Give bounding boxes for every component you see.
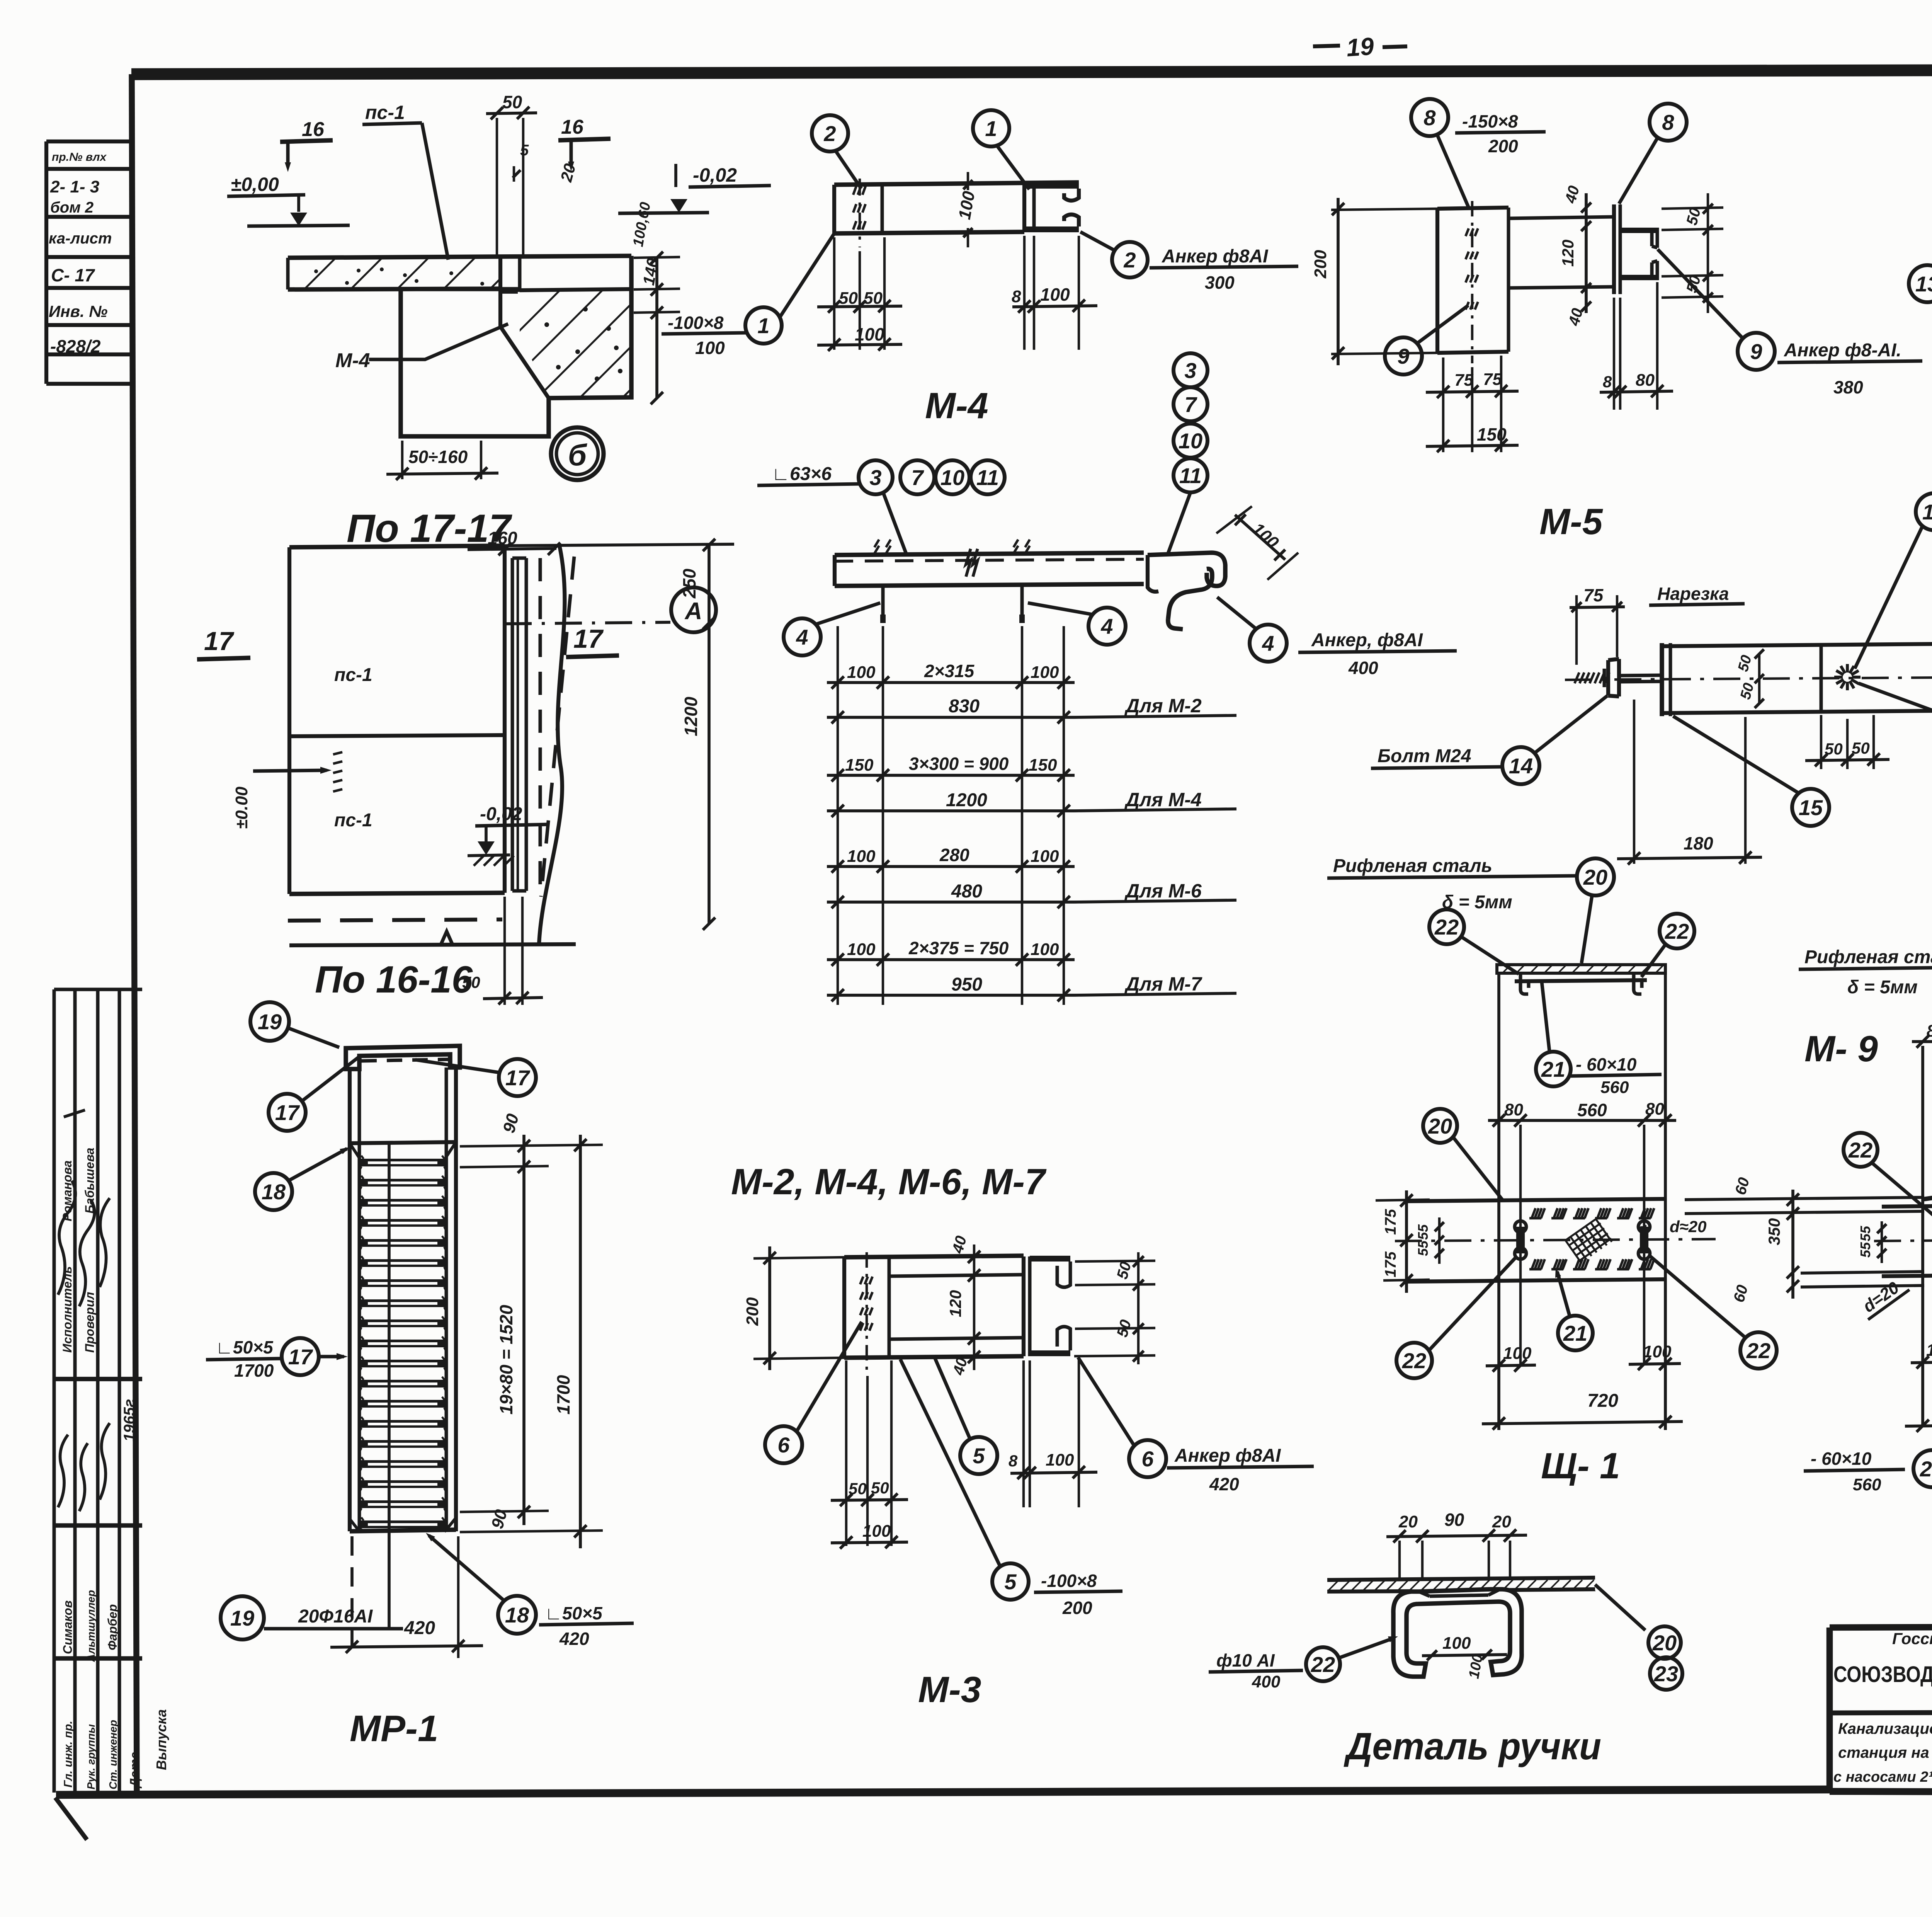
svg-text:100: 100 [1031, 847, 1059, 866]
signatures [58, 1181, 75, 1295]
M-3 channel right [1022, 1256, 1026, 1356]
ladder MR-1 top cap [346, 1046, 460, 1069]
svg-text:8: 8 [1603, 373, 1612, 391]
svg-text:4: 4 [1262, 631, 1274, 655]
svg-text:1: 1 [985, 116, 997, 141]
svg-text:400: 400 [1252, 1672, 1281, 1691]
svg-text:300: 300 [1205, 272, 1235, 293]
svg-text:180: 180 [1684, 833, 1713, 853]
svg-text:21: 21 [1541, 1057, 1565, 1081]
svg-text:пс-1: пс-1 [334, 665, 372, 685]
svg-text:50: 50 [502, 92, 522, 112]
svg-text:17: 17 [288, 1345, 313, 1369]
svg-text:50÷160: 50÷160 [408, 447, 468, 467]
M-5 dim 200 left [1331, 209, 1437, 210]
svg-text:3×300 = 900: 3×300 = 900 [909, 754, 1009, 774]
svg-text:830: 830 [949, 696, 980, 717]
svg-text:17: 17 [505, 1066, 531, 1090]
anchors with hooks [881, 586, 885, 617]
M-5 dims 50 50 right [1707, 193, 1709, 313]
svg-text:4: 4 [1100, 614, 1113, 638]
svg-text:Деталь ручки: Деталь ручки [1344, 1725, 1601, 1767]
svg-text:М- 9: М- 9 [1804, 1028, 1878, 1069]
svg-text:Госстрой: Госстрой [1892, 1629, 1932, 1648]
svg-text:22: 22 [1402, 1348, 1426, 1373]
svg-text:50: 50 [864, 289, 883, 308]
svg-text:100: 100 [1643, 1342, 1672, 1361]
svg-text:19: 19 [230, 1606, 254, 1630]
svg-text:100: 100 [847, 940, 876, 959]
svg-text:Для М-4: Для М-4 [1124, 789, 1202, 810]
svg-text:Для М-2: Для М-2 [1124, 695, 1202, 717]
svg-text:560: 560 [1600, 1078, 1629, 1097]
svg-text:1700: 1700 [553, 1375, 573, 1415]
ladder center rod [388, 1144, 391, 1531]
svg-text:22: 22 [1848, 1138, 1872, 1162]
bottom dashed slab lines [288, 919, 502, 921]
svg-text:280: 280 [939, 845, 969, 865]
Sch-1 panel band [1406, 1199, 1665, 1201]
break marks on bar [966, 549, 978, 577]
ladder rails [348, 1069, 352, 1531]
svg-text:22: 22 [1434, 915, 1459, 939]
M-3 dim 200 left [753, 1257, 844, 1258]
svg-text:15: 15 [1922, 500, 1932, 524]
M-4 dims below left [833, 237, 835, 350]
svg-text:175: 175 [1382, 1251, 1399, 1277]
handle leader to 20 23 [1595, 1585, 1645, 1630]
embedded channel strip [503, 546, 507, 893]
M-4 anchor marks [859, 179, 861, 247]
svg-text:400: 400 [1348, 658, 1378, 678]
callout 15 mid [1792, 789, 1829, 826]
svg-text:90: 90 [1444, 1510, 1464, 1530]
svg-text:Рук. группы: Рук. группы [85, 1724, 97, 1789]
side view callouts 22 [1429, 909, 1464, 944]
svg-text:18: 18 [505, 1603, 529, 1627]
callout 1 left with label -100x8/100 [745, 307, 782, 344]
callout 17 top-left [269, 1094, 306, 1131]
svg-text:1200: 1200 [946, 790, 987, 810]
dim 90 upper [460, 1145, 603, 1146]
callout 2 top [812, 115, 848, 152]
svg-text:420: 420 [404, 1618, 435, 1638]
handle top plate hatched [1327, 1578, 1595, 1580]
svg-text:5: 5 [520, 142, 529, 159]
svg-text:с насосами 2¹/₂ НФ или 4НФ: с насосами 2¹/₂ НФ или 4НФ [1833, 1769, 1932, 1785]
svg-text:Анкер, ф8АΙ: Анкер, ф8АΙ [1311, 630, 1423, 650]
svg-text:8: 8 [1012, 287, 1021, 306]
svg-text:10: 10 [940, 465, 964, 490]
svg-text:120: 120 [1559, 240, 1577, 267]
svg-text:Канализационная насосная: Канализационная насосная [1838, 1720, 1932, 1737]
svg-text:7: 7 [1184, 392, 1197, 417]
svg-text:Выпуска: Выпуска [153, 1709, 169, 1770]
svg-text:80: 80 [1504, 1100, 1523, 1119]
svg-text:2: 2 [823, 121, 836, 146]
svg-text:200: 200 [1062, 1598, 1092, 1618]
svg-text:7: 7 [911, 465, 924, 490]
svg-text:Гл. инж. пр.: Гл. инж. пр. [62, 1721, 75, 1788]
wall block outline [401, 256, 631, 436]
svg-text:1965г: 1965г [121, 1399, 138, 1442]
svg-text:2- 1- 3: 2- 1- 3 [50, 177, 99, 196]
svg-text:По 16-16: По 16-16 [315, 958, 473, 1001]
svg-text:М-4: М-4 [925, 385, 988, 426]
Sch-1 callout 20 left [1423, 1109, 1457, 1143]
svg-text:55: 55 [1415, 1224, 1431, 1240]
svg-text:20: 20 [1583, 865, 1607, 889]
M-2..M-7 plan bar [835, 553, 1144, 555]
M-9 dim 180 [1633, 700, 1635, 864]
svg-text:δ = 5мм: δ = 5мм [1847, 977, 1918, 998]
svg-text:6: 6 [777, 1433, 790, 1457]
svg-text:∟63×6: ∟63×6 [772, 464, 832, 484]
svg-text:11: 11 [1179, 463, 1202, 488]
svg-text:200: 200 [1311, 250, 1330, 279]
callout 6 left [765, 1426, 802, 1463]
dashed excavation lines [539, 558, 542, 891]
svg-text:200: 200 [743, 1297, 762, 1326]
svg-text:М-3: М-3 [918, 1669, 981, 1710]
callout 13 left [1909, 265, 1932, 302]
Sch-2 slanted top plate [1923, 1179, 1932, 1199]
svg-text:МР-1: МР-1 [350, 1708, 438, 1749]
M-9 centerline [1565, 677, 1932, 680]
svg-text:М-2, М-4, М-6, М-7: М-2, М-4, М-6, М-7 [731, 1161, 1047, 1202]
callout 4 mid [1088, 608, 1126, 645]
svg-text:пс-1: пс-1 [334, 810, 372, 831]
svg-text:1: 1 [757, 313, 769, 338]
svg-text:5: 5 [1004, 1570, 1017, 1594]
svg-text:С- 17: С- 17 [51, 265, 95, 285]
svg-text:560: 560 [1577, 1100, 1607, 1120]
callout 4 right with label Anker f8AI/400 [1250, 625, 1287, 662]
svg-text:420: 420 [1209, 1474, 1239, 1494]
Sch-1 weld rows [1529, 1217, 1541, 1219]
callout stack 3 7 10 11 right [1173, 353, 1207, 387]
border frame bottom [56, 1789, 1832, 1795]
svg-text:∟50×5: ∟50×5 [545, 1603, 603, 1623]
band dim lines to the right [1685, 1197, 1924, 1200]
svg-text:100: 100 [1031, 940, 1059, 959]
svg-text:55: 55 [1415, 1240, 1431, 1256]
svg-text:100: 100 [1031, 663, 1059, 682]
svg-text:2: 2 [1123, 248, 1136, 272]
border frame left [132, 74, 137, 1793]
svg-text:21: 21 [1920, 1457, 1932, 1481]
svg-text:ка-лист: ка-лист [49, 230, 112, 247]
svg-text:3: 3 [869, 465, 881, 490]
svg-text:80: 80 [1636, 371, 1655, 390]
callout 5 bottom with label -100x8/200 [992, 1563, 1029, 1600]
svg-text:18: 18 [262, 1180, 286, 1204]
svg-text:22: 22 [1746, 1338, 1770, 1363]
M-5 plate [1437, 208, 1509, 209]
svg-text:100: 100 [862, 1522, 891, 1541]
svg-text:Болт М24: Болт М24 [1378, 746, 1471, 766]
svg-text:75: 75 [1454, 371, 1473, 390]
svg-text:1200: 1200 [681, 696, 701, 736]
svg-text:200: 200 [1488, 136, 1518, 156]
stamp column lower boxes [53, 989, 56, 1793]
M-4 channel end [1022, 183, 1026, 232]
svg-text:9: 9 [1397, 344, 1409, 368]
svg-text:17: 17 [275, 1100, 300, 1125]
M-9 dims 50 50 bottom [1820, 715, 1822, 769]
svg-text:Щ- 1: Щ- 1 [1541, 1445, 1620, 1486]
svg-text:720: 720 [1587, 1391, 1618, 1411]
callout 18 upper [255, 1173, 292, 1210]
svg-text:Ст. инженер: Ст. инженер [107, 1720, 119, 1789]
Sch-1 left dims 175 175 55 55 [1405, 1190, 1408, 1293]
svg-text:СОЮЗВОДОКАНАЛПРОЕКТ: СОЮЗВОДОКАНАЛПРОЕКТ [1833, 1662, 1932, 1687]
svg-text:19: 19 [1345, 32, 1375, 62]
svg-text:4: 4 [796, 625, 808, 649]
Sch-1 callout 21 bottom [1558, 1316, 1593, 1350]
svg-text:- 60×10: - 60×10 [1576, 1054, 1637, 1074]
svg-text:100: 100 [1442, 1634, 1471, 1653]
svg-text:250: 250 [679, 569, 699, 599]
svg-text:21: 21 [1563, 1321, 1587, 1345]
dims 250 / 1200 right [505, 544, 734, 546]
svg-text:23: 23 [1654, 1662, 1678, 1686]
wall outline 16-16 [289, 546, 505, 547]
callout 15 top with label -100x16/100 [1916, 493, 1932, 530]
dashed extension ladder bottom [350, 1536, 354, 1658]
svg-text:350: 350 [1765, 1218, 1783, 1245]
ladder top transition [350, 1142, 456, 1143]
callout 8 right [1650, 104, 1687, 141]
svg-text:13: 13 [1915, 272, 1932, 296]
svg-text:100: 100 [855, 324, 884, 344]
svg-text:- 60×10: - 60×10 [1811, 1449, 1872, 1469]
svg-text:175: 175 [1382, 1209, 1399, 1235]
svg-text:пр.№ влх: пр.№ влх [52, 151, 107, 163]
M-4 plate plan [834, 182, 1079, 185]
svg-text:Анкер ф8АΙ: Анкер ф8АΙ [1174, 1445, 1281, 1466]
svg-text:950: 950 [951, 974, 982, 995]
svg-text:16: 16 [561, 116, 584, 138]
callout 9 right with label Anker f8-AI/380 [1738, 333, 1775, 370]
svg-text:Нарезка: Нарезка [1657, 584, 1729, 604]
break curve right [539, 544, 565, 945]
M-5 bottom dims 75 75 150 [1442, 358, 1444, 452]
svg-text:560: 560 [1853, 1475, 1881, 1494]
dim 420 bottom [457, 1536, 459, 1658]
M-9 weld burst [1834, 664, 1861, 690]
svg-text:∟50×5: ∟50×5 [216, 1337, 274, 1357]
concrete slab strip [288, 256, 631, 258]
svg-text:-828/2: -828/2 [50, 336, 101, 356]
label d=20 rotated [1856, 1273, 1910, 1319]
callout 2 right with label Anker f8AI/300 [1112, 242, 1148, 278]
svg-text:20: 20 [1428, 1114, 1452, 1138]
M-3 dims 50 50 right [1137, 1252, 1139, 1364]
svg-text:20: 20 [1492, 1512, 1511, 1531]
svg-text:150: 150 [1477, 424, 1507, 444]
axis line and node A [505, 622, 670, 624]
svg-text:150: 150 [845, 756, 874, 775]
svg-text:пс-1: пс-1 [365, 102, 405, 123]
svg-text:2×315: 2×315 [924, 661, 975, 681]
callout 19 bottom with label 20 f16AI [221, 1596, 264, 1639]
handle C profile [1393, 1589, 1522, 1677]
svg-text:-0,02: -0,02 [480, 804, 522, 824]
svg-text:380: 380 [1833, 377, 1863, 397]
Sch-2 panel band [1882, 1204, 1932, 1207]
embedded plate M-4 joint [500, 287, 520, 292]
svg-text:ф10 АΙ: ф10 АΙ [1216, 1650, 1275, 1670]
svg-text:19×80 = 1520: 19×80 = 1520 [496, 1305, 516, 1415]
svg-text:Проверил: Проверил [83, 1292, 97, 1353]
Sch-1 centerline [1395, 1239, 1716, 1241]
svg-text:100: 100 [1040, 284, 1070, 305]
svg-text:50: 50 [1852, 739, 1870, 757]
svg-text:17: 17 [573, 624, 604, 654]
svg-text:420: 420 [559, 1629, 589, 1649]
svg-text:Дата: Дата [128, 1752, 142, 1789]
svg-text:100: 100 [1046, 1451, 1074, 1469]
svg-text:100: 100 [847, 847, 876, 866]
corner slash bottom-left [55, 1798, 87, 1840]
svg-text:75: 75 [1583, 585, 1604, 605]
svg-text:Рифленая сталь: Рифленая сталь [1333, 856, 1492, 876]
callout 1 top [973, 110, 1009, 146]
svg-text:10: 10 [1179, 429, 1202, 453]
svg-text:22: 22 [1311, 1652, 1335, 1677]
Sch-1 callout 22 right-bottom [1740, 1332, 1777, 1369]
svg-text:8: 8 [1423, 106, 1436, 130]
border frame top [131, 69, 1932, 74]
slab hatch [289, 258, 499, 288]
svg-text:75: 75 [1483, 370, 1502, 389]
Sch-1 side view plate [1497, 965, 1665, 973]
Sch-1 label -60x10/560 callout 21 [1536, 1052, 1571, 1086]
M-5 anchor marks [1471, 201, 1473, 363]
svg-text:Фарбер: Фарбер [105, 1604, 119, 1650]
svg-text:50: 50 [839, 289, 858, 308]
svg-text:6: 6 [1141, 1447, 1154, 1471]
M-9 dims 50 50 rotated mid [1758, 653, 1760, 704]
callout 4 left [784, 618, 821, 655]
svg-text:20Ф16АΙ: 20Ф16АΙ [298, 1606, 373, 1627]
svg-text:9: 9 [1750, 339, 1762, 364]
M-5 flanges [1620, 228, 1657, 233]
M-3 anchor marks [866, 1252, 868, 1376]
M-9 bolt [1575, 672, 1579, 683]
svg-text:2×375 = 750: 2×375 = 750 [908, 938, 1009, 958]
svg-text:-150×8: -150×8 [1462, 111, 1518, 131]
svg-text:Бабышева: Бабышева [83, 1147, 97, 1214]
right vertical dims of Po17-17 [655, 258, 658, 398]
svg-text:120: 120 [946, 1290, 964, 1317]
svg-text:5: 5 [973, 1444, 985, 1468]
svg-text:Для М-6: Для М-6 [1124, 880, 1202, 902]
svg-text:8: 8 [1009, 1452, 1018, 1470]
Sch-2 callout 22 left [1844, 1133, 1878, 1167]
svg-text:бом 2: бом 2 [50, 199, 94, 216]
svg-text:11: 11 [976, 465, 999, 490]
dim 19x80=1520 [518, 1506, 530, 1518]
M-5 dims 40 120 40 [1585, 193, 1588, 313]
svg-text:55: 55 [1857, 1242, 1873, 1258]
svg-text:-100×8: -100×8 [1041, 1571, 1097, 1591]
svg-text:17: 17 [204, 627, 235, 656]
Sch-2 projection verticals [1921, 1046, 1924, 1426]
svg-text:8: 8 [1662, 110, 1674, 134]
svg-text:20: 20 [1398, 1512, 1418, 1531]
title block outer box [1830, 1625, 1932, 1628]
svg-text:1700: 1700 [234, 1360, 274, 1381]
svg-text:22: 22 [1665, 919, 1689, 943]
svg-text:Анкер ф8-АΙ.: Анкер ф8-АΙ. [1784, 340, 1901, 361]
svg-text:б: б [568, 438, 587, 472]
M-5 T web [1612, 204, 1616, 294]
svg-text:15: 15 [1799, 795, 1823, 820]
node circle b [551, 427, 604, 480]
svg-text:150: 150 [1029, 756, 1057, 775]
svg-text:-100×8: -100×8 [668, 313, 724, 333]
dim stack verticals [837, 626, 839, 1005]
Sch-1 callout 22 left-bottom [1396, 1343, 1432, 1378]
svg-text:480: 480 [951, 881, 982, 902]
svg-text:55: 55 [1857, 1226, 1873, 1241]
callout 8 left with label -150x8/200 [1411, 99, 1448, 136]
svg-text:Альтшуллер: Альтшуллер [85, 1590, 97, 1662]
J-hook channel right [1148, 553, 1225, 586]
M-5 bar [1509, 217, 1614, 218]
svg-text:100: 100 [1503, 1344, 1532, 1363]
svg-text:20: 20 [1652, 1631, 1677, 1655]
svg-text:А: А [684, 598, 702, 625]
svg-text:19: 19 [258, 1010, 282, 1034]
M-3 outline [844, 1256, 1024, 1257]
svg-text:М-4: М-4 [335, 349, 370, 372]
svg-text:Рифленая сталь: Рифленая сталь [1804, 947, 1932, 967]
Sch-1 projection verticals [1497, 972, 1500, 1430]
dim 50 bottom [503, 897, 506, 1005]
svg-text:100: 100 [847, 663, 876, 682]
svg-text:Инв. №: Инв. № [49, 302, 107, 320]
svg-text:-0,02: -0,02 [693, 164, 737, 186]
ladder rungs [359, 1159, 446, 1166]
Sch-1 bolts [1515, 1221, 1526, 1233]
M-3 bottom dims 50 50 100 [845, 1360, 847, 1546]
svg-text:Для М-7: Для М-7 [1124, 973, 1202, 995]
callout 18 bottom with label L50x5/420 [498, 1596, 536, 1634]
Sch-1 crosshatch patch [1565, 1218, 1613, 1263]
ladder bottom [350, 1530, 456, 1531]
callout 17 top-right [499, 1059, 536, 1096]
M-3 dims 40 120 40 [973, 1245, 975, 1370]
M-9 bar [1663, 644, 1932, 646]
svg-text:±0.00: ±0.00 [232, 787, 251, 829]
Sch-2 centerline [1874, 1239, 1932, 1241]
svg-text:станция на 3 агрегата: станция на 3 агрегата [1838, 1744, 1932, 1761]
svg-text:М-5: М-5 [1539, 501, 1603, 542]
callout 19 top [250, 1002, 289, 1041]
callout 9 left [1385, 337, 1422, 375]
svg-text:3: 3 [1184, 358, 1196, 383]
svg-text:14: 14 [1509, 754, 1533, 778]
svg-text:100: 100 [695, 338, 725, 358]
stamp column upper boxes [44, 141, 48, 384]
callout 5 mid [960, 1437, 997, 1474]
svg-text:Симаков: Симаков [61, 1600, 75, 1654]
svg-text:16: 16 [302, 118, 325, 141]
side view hooks [1520, 973, 1529, 994]
